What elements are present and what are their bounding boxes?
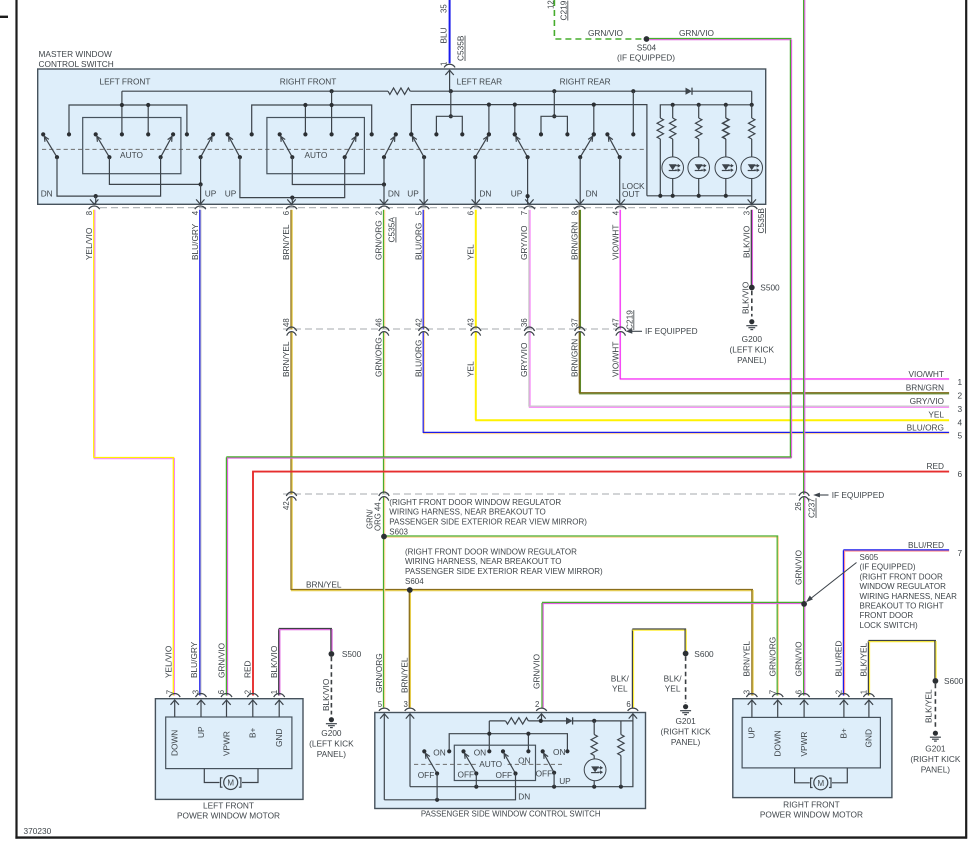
- connector dashed line under master box: [100, 207, 745, 209]
- svg-text:PANEL): PANEL): [317, 749, 347, 759]
- auto text patch: [477, 758, 505, 768]
- auto box right front: [267, 118, 365, 174]
- svg-text:WIRING HARNESS, NEAR BREAKOUT: WIRING HARNESS, NEAR BREAKOUT TO: [389, 508, 545, 517]
- svg-text:BRN/YEL: BRN/YEL: [281, 224, 291, 260]
- splice S600 (switch): [683, 651, 689, 657]
- svg-text:42: 42: [414, 318, 423, 327]
- svg-text:(RIGHT FRONT DOOR WINDOW REGUL: (RIGHT FRONT DOOR WINDOW REGULATOR: [405, 547, 577, 556]
- right motor pin arcs and arrows: [746, 694, 757, 698]
- wire BRN/GRN: [578, 210, 580, 330]
- svg-text:PANEL): PANEL): [737, 355, 767, 365]
- svg-text:YEL: YEL: [665, 684, 681, 694]
- svg-text:(RIGHT KICK: (RIGHT KICK: [910, 754, 961, 764]
- svg-text:6: 6: [958, 469, 963, 479]
- svg-text:DOWN: DOWN: [170, 730, 180, 756]
- connector C237 pin arcs: [290, 495, 294, 498]
- passenger DN row: [384, 774, 515, 800]
- switch PSW-4: [544, 753, 554, 772]
- wire BLK/VIO (motor gnd): [278, 629, 280, 696]
- svg-text:BRN/YEL: BRN/YEL: [400, 657, 410, 693]
- svg-text:3: 3: [192, 690, 201, 694]
- svg-text:RIGHT REAR: RIGHT REAR: [560, 76, 611, 86]
- IF EQUIPPED arrow (C237): [817, 494, 829, 496]
- svg-text:37: 37: [570, 318, 579, 327]
- switch LR-UP: [412, 136, 424, 157]
- svg-text:CONTROL SWITCH: CONTROL SWITCH: [39, 59, 114, 69]
- resistor (feed row): [388, 88, 410, 94]
- splice S504: [644, 36, 650, 42]
- svg-text:GRN/ORG: GRN/ORG: [374, 337, 384, 377]
- svg-text:C219: C219: [558, 0, 568, 20]
- page border frame: [0, 16, 8, 18]
- switch LOCKOUT: [608, 136, 619, 157]
- feed wire row: [122, 90, 388, 92]
- splice S605: [801, 601, 807, 607]
- svg-text:(RIGHT FRONT DOOR: (RIGHT FRONT DOOR: [860, 572, 943, 581]
- svg-text:BLK/YEL: BLK/YEL: [859, 642, 869, 676]
- svg-text:GRN/VIO: GRN/VIO: [794, 641, 804, 677]
- switch RF-AUTO-R: [345, 136, 356, 157]
- svg-text:DN: DN: [479, 189, 491, 199]
- passenger row A: [489, 720, 505, 722]
- svg-text:43: 43: [466, 318, 475, 327]
- svg-text:GRN/VIO: GRN/VIO: [531, 653, 541, 689]
- junction dots on feed row: [330, 89, 334, 93]
- passenger pin stubs: [541, 714, 543, 721]
- right front upper row: [252, 105, 372, 134]
- splice S500: [749, 285, 755, 291]
- wire BLU/GRY: [199, 210, 201, 696]
- switch RF-AUTO-L: [281, 136, 293, 157]
- wire RED: [252, 472, 254, 696]
- svg-text:1: 1: [958, 377, 963, 387]
- svg-text:4: 4: [191, 210, 200, 215]
- svg-text:2: 2: [243, 690, 252, 694]
- svg-text:6: 6: [626, 700, 630, 709]
- svg-text:BRN/GRN: BRN/GRN: [569, 339, 579, 377]
- svg-text:VIO/WHT: VIO/WHT: [909, 369, 945, 379]
- svg-text:2: 2: [835, 690, 844, 694]
- svg-text:UP: UP: [407, 189, 419, 199]
- svg-text:YEL: YEL: [612, 684, 628, 694]
- master window control switch box: [38, 69, 766, 204]
- connector C219 dashed line: [283, 328, 622, 330]
- left motor pin arcs and arrows: [169, 694, 180, 698]
- svg-text:(RIGHT KICK: (RIGHT KICK: [661, 726, 712, 736]
- svg-text:LEFT REAR: LEFT REAR: [457, 76, 503, 86]
- svg-text:GRY/VIO: GRY/VIO: [519, 342, 529, 377]
- svg-text:BLU/ORG: BLU/ORG: [413, 340, 423, 377]
- switch RR-DN: [580, 136, 592, 157]
- svg-text:S603: S603: [389, 527, 408, 536]
- svg-text:WIRING HARNESS, NEAR BREAKOUT: WIRING HARNESS, NEAR BREAKOUT TO: [405, 557, 561, 566]
- svg-text:FRONT DOOR: FRONT DOOR: [860, 611, 914, 620]
- svg-text:S600: S600: [694, 649, 714, 659]
- svg-text:BLU/GRY: BLU/GRY: [190, 223, 200, 260]
- svg-text:LOCK SWITCH): LOCK SWITCH): [860, 621, 919, 630]
- svg-text:OUT: OUT: [622, 189, 640, 199]
- RF-UP pivot wiring: [240, 157, 345, 197]
- svg-text:8: 8: [570, 211, 579, 215]
- resistor R4: [751, 105, 753, 118]
- svg-text:UP: UP: [747, 727, 757, 739]
- svg-text:GRN/VIO: GRN/VIO: [588, 28, 624, 38]
- switch LF-DN: [44, 136, 57, 157]
- svg-text:IF EQUIPPED: IF EQUIPPED: [645, 326, 698, 336]
- wire VIO/WHT: [619, 210, 621, 330]
- svg-text:PASSENGER SIDE WINDOW CONTROL: PASSENGER SIDE WINDOW CONTROL SWITCH: [421, 809, 601, 818]
- svg-text:G201: G201: [675, 716, 696, 726]
- svg-text:48: 48: [282, 318, 291, 327]
- right rear feed tree: [553, 91, 555, 116]
- switch PSW-2: [465, 753, 477, 773]
- switch LF-AUTO-L: [97, 136, 110, 157]
- svg-text:YEL: YEL: [465, 244, 475, 260]
- mechanical coupling dashed line: [42, 148, 646, 150]
- svg-text:7: 7: [520, 211, 529, 215]
- svg-text:6: 6: [795, 690, 804, 694]
- svg-text:ON: ON: [474, 747, 486, 757]
- LED supply row: [660, 105, 751, 118]
- LED D3: [715, 157, 737, 179]
- svg-text:BLU/ORG: BLU/ORG: [907, 422, 944, 432]
- svg-text:12: 12: [546, 0, 555, 9]
- svg-text:DOWN: DOWN: [773, 730, 783, 756]
- lockout feed: [632, 91, 634, 134]
- left rear upper row B: [411, 105, 647, 196]
- RF-AUTO pivot wiring: [292, 157, 384, 184]
- svg-text:DN: DN: [586, 189, 598, 199]
- svg-text:S605: S605: [860, 553, 879, 562]
- wire GRN/VIO solid from S504: [649, 38, 791, 40]
- passenger bottom row: [410, 786, 634, 788]
- splice S500 (motor): [329, 651, 335, 657]
- svg-text:PANEL): PANEL): [921, 764, 951, 774]
- svg-text:UP: UP: [559, 776, 571, 786]
- svg-text:BREAKOUT TO RIGHT: BREAKOUT TO RIGHT: [860, 602, 944, 611]
- svg-text:2: 2: [535, 700, 539, 709]
- switch LF-UP: [201, 136, 212, 157]
- svg-text:(LEFT KICK: (LEFT KICK: [309, 738, 354, 748]
- svg-text:1: 1: [270, 690, 279, 694]
- switch RR-UP: [516, 136, 528, 157]
- svg-text:YEL: YEL: [465, 361, 475, 377]
- passenger row B: [449, 734, 567, 752]
- svg-text:4: 4: [958, 417, 963, 427]
- resistor R0: [657, 118, 663, 139]
- LED D1: [662, 157, 684, 179]
- LR pivot wires: [423, 157, 425, 204]
- svg-text:MASTER WINDOW: MASTER WINDOW: [39, 49, 112, 59]
- master box pin exit arrows and connector arcs: [90, 199, 98, 204]
- svg-text:7: 7: [165, 690, 174, 694]
- svg-text:2: 2: [375, 211, 384, 215]
- dashed BLK/YEL to G201: [685, 656, 687, 703]
- svg-text:YEL: YEL: [928, 410, 944, 420]
- svg-text:BRN/GRN: BRN/GRN: [569, 222, 579, 260]
- svg-text:POWER WINDOW MOTOR: POWER WINDOW MOTOR: [177, 810, 280, 820]
- svg-text:2: 2: [958, 391, 963, 401]
- svg-text:BLU/RED: BLU/RED: [834, 641, 844, 677]
- IF EQUIPPED arrow (C219): [630, 330, 642, 332]
- svg-text:GND: GND: [864, 729, 874, 747]
- svg-text:46: 46: [375, 318, 384, 327]
- splice S604: [407, 587, 413, 593]
- svg-text:G200: G200: [321, 728, 342, 738]
- svg-text:AUTO: AUTO: [479, 759, 502, 769]
- svg-text:BLK/VIO: BLK/VIO: [321, 678, 331, 711]
- lock pivot wire: [619, 157, 621, 204]
- svg-text:26: 26: [794, 502, 803, 511]
- wire YEL (left rear dn): [475, 210, 477, 330]
- svg-text:VIO/WHT: VIO/WHT: [610, 225, 620, 261]
- svg-text:RED: RED: [926, 461, 944, 471]
- svg-text:DN: DN: [518, 792, 530, 802]
- wire GRN/VIO (A): [789, 40, 791, 458]
- svg-text:VPWR: VPWR: [799, 732, 809, 757]
- resistor R1: [670, 118, 676, 139]
- svg-text:M: M: [817, 779, 824, 788]
- wire BLU/RED: [843, 549, 949, 551]
- svg-text:BLK/VIO: BLK/VIO: [741, 225, 751, 258]
- svg-text:5: 5: [958, 430, 963, 440]
- pin1 arrow: [445, 70, 453, 75]
- passenger terminal dots: [447, 749, 451, 753]
- svg-text:IF EQUIPPED: IF EQUIPPED: [832, 490, 885, 500]
- left front motor box: [155, 699, 303, 800]
- auto box left front: [83, 118, 181, 174]
- svg-text:G200: G200: [742, 334, 763, 344]
- svg-text:GRN/ORG: GRN/ORG: [767, 637, 777, 677]
- passenger R1: [593, 721, 595, 735]
- svg-text:1: 1: [860, 690, 869, 694]
- S605 arrow: [810, 563, 857, 600]
- wire BLK/VIO (master pin3): [750, 210, 752, 285]
- svg-text:LEFT FRONT: LEFT FRONT: [99, 76, 150, 86]
- svg-text:BLU/ORG: BLU/ORG: [413, 223, 423, 260]
- svg-text:VPWR: VPWR: [221, 731, 231, 756]
- dashed BLK/YEL to G201 (motor): [934, 684, 936, 728]
- switch RF-DN: [384, 136, 395, 157]
- svg-text:C535B: C535B: [456, 35, 466, 61]
- left rear feed tree: [450, 91, 452, 116]
- switch PSW-3: [504, 753, 515, 773]
- svg-text:OFF: OFF: [458, 770, 475, 780]
- svg-text:6: 6: [466, 211, 475, 215]
- wire BLU/ORG: [422, 210, 424, 330]
- svg-text:ON: ON: [553, 747, 565, 757]
- row B hang verticals: [488, 105, 490, 135]
- wire 35 BLU (pin1): [449, 0, 451, 63]
- svg-text:36: 36: [520, 318, 529, 327]
- passenger R2: [620, 721, 622, 735]
- svg-text:WINDOW REGULATOR: WINDOW REGULATOR: [860, 582, 947, 591]
- passenger mech dashed line: [414, 763, 562, 765]
- svg-text:PASSENGER SIDE EXTERIOR REAR V: PASSENGER SIDE EXTERIOR REAR VIEW MIRROR…: [405, 567, 603, 576]
- passenger side window control switch box: [375, 713, 646, 809]
- svg-text:6: 6: [282, 211, 291, 215]
- svg-text:8: 8: [85, 211, 94, 215]
- svg-text:3: 3: [742, 211, 751, 215]
- svg-text:PASSENGER SIDE EXTERIOR REAR V: PASSENGER SIDE EXTERIOR REAR VIEW MIRROR…: [389, 517, 587, 526]
- wire GRN/ORG: [383, 210, 385, 330]
- svg-text:GRY/VIO: GRY/VIO: [910, 396, 945, 406]
- wire BLK/YEL (passenger gnd): [631, 630, 633, 709]
- LED cathode row: [647, 195, 752, 197]
- svg-text:GND: GND: [274, 729, 284, 747]
- left rear terminal dots: [409, 132, 413, 136]
- left front upper row: [69, 105, 187, 134]
- svg-text:3: 3: [403, 700, 407, 709]
- svg-text:(IF EQUIPPED): (IF EQUIPPED): [617, 52, 675, 62]
- svg-text:S500: S500: [342, 649, 362, 659]
- svg-text:GRY/VIO: GRY/VIO: [519, 225, 529, 260]
- wire YEL/VIO: [93, 210, 95, 458]
- svg-text:OFF: OFF: [418, 770, 435, 780]
- svg-text:GRN/VIO: GRN/VIO: [216, 642, 226, 678]
- svg-text:GRN/ORG: GRN/ORG: [374, 653, 384, 693]
- ground G201 (switch): [683, 704, 688, 709]
- passenger resistor (row A): [506, 718, 529, 724]
- RR pivot wires: [527, 157, 529, 204]
- diode CR1 (feed row): [686, 88, 693, 95]
- svg-text:B+: B+: [839, 728, 849, 739]
- svg-text:LEFT FRONT: LEFT FRONT: [203, 800, 254, 810]
- svg-text:VIO/WHT: VIO/WHT: [610, 342, 620, 378]
- passenger LED: [584, 759, 606, 781]
- right front terminal dots: [250, 132, 254, 136]
- svg-text:S604: S604: [405, 577, 424, 586]
- ground G200: [749, 319, 754, 324]
- switch PSW-1: [425, 753, 437, 773]
- svg-text:YEL/VIO: YEL/VIO: [164, 645, 174, 678]
- svg-text:S504: S504: [637, 42, 657, 52]
- wire GRN/VIO dashed (C219 pin12): [554, 0, 643, 39]
- svg-text:C237: C237: [807, 498, 817, 518]
- svg-text:GRN/ORG: GRN/ORG: [374, 220, 384, 260]
- left motor M symbol: [204, 769, 219, 783]
- right motor M symbol: [795, 768, 810, 783]
- svg-text:BLK/VIO: BLK/VIO: [269, 645, 279, 678]
- right front motor box: [733, 699, 892, 798]
- svg-text:DN: DN: [388, 189, 400, 199]
- svg-text:DN: DN: [41, 189, 53, 199]
- svg-text:4: 4: [611, 210, 620, 215]
- wire BRN/YEL: [290, 210, 292, 330]
- svg-text:BLU: BLU: [439, 27, 449, 43]
- dashed BLK/VIO to G200: [751, 291, 753, 317]
- LED D2: [688, 157, 710, 179]
- svg-text:RED: RED: [243, 660, 253, 678]
- svg-text:C219: C219: [624, 310, 634, 330]
- LED D4: [741, 157, 763, 179]
- svg-text:3: 3: [958, 404, 963, 414]
- passenger switch pin arcs arrows numbers: [379, 708, 390, 711]
- right rear terminal dots: [513, 132, 517, 136]
- svg-text:BRN/YEL: BRN/YEL: [281, 341, 291, 377]
- svg-text:5: 5: [378, 700, 383, 709]
- svg-text:YEL/VIO: YEL/VIO: [84, 227, 94, 260]
- svg-text:ON: ON: [518, 755, 530, 765]
- svg-text:BLK/VIO: BLK/VIO: [741, 281, 751, 314]
- connector C219 pin arcs: [290, 330, 294, 333]
- ground G200 (motor): [329, 717, 334, 722]
- svg-text:BRN/GRN: BRN/GRN: [906, 383, 944, 393]
- svg-text:BLU/GRY: BLU/GRY: [189, 641, 199, 678]
- svg-text:6: 6: [217, 690, 226, 694]
- passenger auto box: [454, 745, 535, 780]
- ground G201 (motor): [933, 731, 938, 736]
- svg-text:42: 42: [282, 501, 291, 510]
- svg-text:UP: UP: [205, 189, 217, 199]
- svg-text:BLK/YEL: BLK/YEL: [924, 689, 934, 723]
- wire GRN/VIO (B): [803, 0, 805, 495]
- resistor R2: [696, 118, 702, 139]
- svg-text:ON: ON: [433, 747, 445, 757]
- splice S600 (motor): [933, 678, 939, 684]
- svg-text:370230: 370230: [24, 826, 52, 836]
- svg-text:GRN/VIO: GRN/VIO: [679, 28, 715, 38]
- svg-text:S500: S500: [760, 283, 780, 293]
- svg-text:AUTO: AUTO: [304, 150, 327, 160]
- svg-text:UP: UP: [511, 189, 523, 199]
- svg-text:UP: UP: [196, 726, 206, 738]
- svg-text:(LEFT KICK: (LEFT KICK: [730, 344, 775, 354]
- svg-text:47: 47: [611, 318, 620, 327]
- wire GRY/VIO: [528, 210, 530, 330]
- LF-AUTO pivot wiring: [109, 157, 200, 184]
- svg-text:RIGHT FRONT: RIGHT FRONT: [783, 800, 840, 810]
- svg-text:1: 1: [440, 62, 449, 66]
- svg-text:OFF: OFF: [536, 769, 553, 779]
- svg-text:C535B: C535B: [756, 208, 766, 234]
- passenger diode: [566, 717, 573, 724]
- left front terminal dots: [67, 132, 71, 136]
- svg-text:G201: G201: [925, 744, 946, 754]
- svg-text:PANEL): PANEL): [671, 737, 701, 747]
- svg-text:RIGHT FRONT: RIGHT FRONT: [280, 76, 337, 86]
- svg-text:C535A: C535A: [387, 217, 397, 243]
- svg-text:7: 7: [768, 690, 777, 694]
- resistor R3: [723, 118, 729, 139]
- svg-text:S600: S600: [944, 676, 964, 686]
- svg-text:UP: UP: [225, 189, 237, 199]
- LF-DN pivot wiring: [57, 157, 161, 196]
- svg-text:(RIGHT FRONT DOOR WINDOW REGUL: (RIGHT FRONT DOOR WINDOW REGULATOR: [389, 498, 561, 507]
- svg-text:GRN/VIO: GRN/VIO: [794, 549, 804, 585]
- pin1 connector arc: [444, 64, 455, 67]
- svg-text:B+: B+: [248, 727, 258, 738]
- svg-text:AUTO: AUTO: [120, 150, 143, 160]
- svg-text:7: 7: [958, 548, 963, 558]
- svg-text:5: 5: [414, 210, 423, 215]
- svg-text:(IF EQUIPPED): (IF EQUIPPED): [860, 563, 916, 572]
- svg-text:M: M: [227, 779, 234, 788]
- connector C237 dashed line: [283, 493, 800, 495]
- svg-text:BLK/: BLK/: [664, 674, 683, 684]
- splice S603: [381, 534, 387, 540]
- svg-text:ORG 44: ORG 44: [373, 502, 382, 531]
- svg-text:BLK/: BLK/: [611, 674, 630, 684]
- svg-text:3: 3: [743, 690, 752, 694]
- wire BLK/YEL (right motor gnd): [867, 641, 869, 696]
- svg-text:BRN/YEL: BRN/YEL: [306, 580, 342, 590]
- svg-text:WIRING HARNESS, NEAR: WIRING HARNESS, NEAR: [860, 592, 958, 601]
- svg-text:BLU/RED: BLU/RED: [908, 540, 944, 550]
- dashed BLK/VIO to G200 (motor): [330, 657, 332, 715]
- svg-text:POWER WINDOW MOTOR: POWER WINDOW MOTOR: [760, 810, 863, 820]
- svg-text:35: 35: [440, 4, 449, 13]
